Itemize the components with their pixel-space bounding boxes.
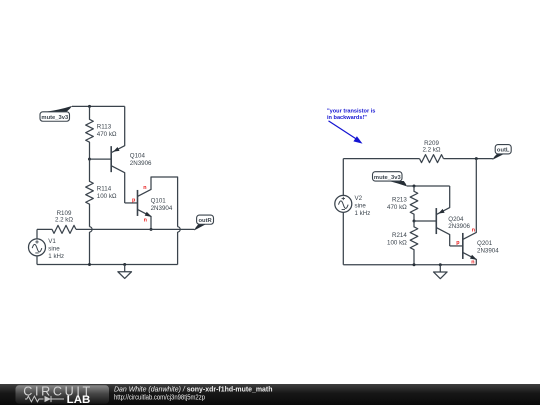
svg-text:100 kΩ: 100 kΩ — [387, 240, 407, 247]
svg-text:470 kΩ: 470 kΩ — [387, 204, 407, 211]
wire Q204 base — [414, 220, 436, 222]
wire top rail right — [343, 158, 419, 160]
node ground tap right — [439, 263, 442, 266]
svg-text:2N3906: 2N3906 — [448, 223, 470, 230]
node R214 bottom — [413, 263, 416, 266]
node outL junction — [475, 157, 478, 160]
node Q204 base — [413, 220, 416, 223]
svg-text:Q201: Q201 — [477, 240, 493, 247]
svg-text:R114: R114 — [97, 186, 112, 193]
svg-text:outR: outR — [198, 218, 212, 224]
svg-text:V1: V1 — [48, 238, 56, 245]
ground — [118, 265, 132, 279]
voltage source V2 — [335, 159, 371, 265]
resistor R114 — [86, 159, 117, 264]
flag mute_3v3 right — [373, 172, 408, 187]
svg-text:n: n — [472, 228, 475, 234]
transistor Q204 — [436, 186, 470, 246]
svg-text:outL: outL — [497, 148, 510, 154]
transistor Q101 — [125, 177, 181, 265]
svg-text:Q104: Q104 — [130, 153, 146, 160]
blue arrow — [329, 121, 357, 139]
wire top rail — [72, 105, 125, 107]
transistor Q201 — [450, 159, 500, 265]
wire bottom rail — [37, 264, 178, 266]
wire flag to Q204 emitter — [407, 185, 450, 187]
svg-text:in backwards!": in backwards!" — [327, 115, 367, 121]
svg-text:1 kHz: 1 kHz — [48, 253, 64, 260]
wire bottom rail right — [343, 264, 476, 266]
svg-text:n: n — [143, 185, 146, 191]
svg-text:n: n — [144, 218, 147, 224]
node top-rail junction — [88, 105, 91, 108]
transistor Q104 — [111, 106, 152, 203]
node base of Q104 — [88, 158, 91, 161]
svg-text:V2: V2 — [355, 195, 363, 202]
resistor R213 — [387, 186, 418, 221]
resistor R209 — [420, 140, 444, 163]
resistor R214 — [387, 221, 418, 265]
svg-text:2N3904: 2N3904 — [477, 247, 499, 254]
svg-text:http://circuitlab.com/cj3n98tj: http://circuitlab.com/cj3n98tj5m2zp — [114, 393, 205, 402]
svg-text:Q204: Q204 — [448, 216, 464, 223]
svg-text:mute_3v3: mute_3v3 — [374, 175, 402, 181]
voltage source V1 — [29, 229, 65, 264]
svg-text:470 kΩ: 470 kΩ — [97, 131, 117, 138]
flag outL — [492, 145, 511, 160]
svg-text:R214: R214 — [392, 232, 407, 239]
wire output net to outR — [76, 228, 195, 230]
node R213 top — [413, 185, 416, 188]
svg-text:sine: sine — [48, 246, 60, 253]
flag mute_3v3 — [40, 106, 72, 121]
svg-text:2.2 kΩ: 2.2 kΩ — [55, 217, 73, 224]
svg-text:LAB: LAB — [67, 394, 91, 405]
svg-text:2N3904: 2N3904 — [151, 205, 173, 212]
svg-text:100 kΩ: 100 kΩ — [97, 193, 117, 200]
resistor R109 — [37, 210, 76, 234]
svg-text:R113: R113 — [97, 123, 112, 130]
node R114 to rail — [88, 263, 91, 266]
resistor R113 — [86, 106, 117, 159]
svg-text:mute_3v3: mute_3v3 — [41, 115, 69, 121]
svg-text:"your transistor is: "your transistor is — [327, 109, 375, 115]
svg-text:2N3906: 2N3906 — [130, 160, 152, 167]
svg-text:Q101: Q101 — [151, 198, 167, 205]
svg-text:2.2 kΩ: 2.2 kΩ — [422, 147, 440, 154]
ground right — [434, 265, 448, 279]
svg-text:R213: R213 — [392, 197, 407, 204]
flag outR — [194, 215, 214, 230]
svg-text:1 kHz: 1 kHz — [355, 210, 371, 217]
svg-text:sine: sine — [355, 203, 367, 210]
node Q101 emitter on output wire — [150, 228, 153, 231]
wire Q104 base — [90, 158, 112, 160]
node ground tap — [123, 263, 126, 266]
